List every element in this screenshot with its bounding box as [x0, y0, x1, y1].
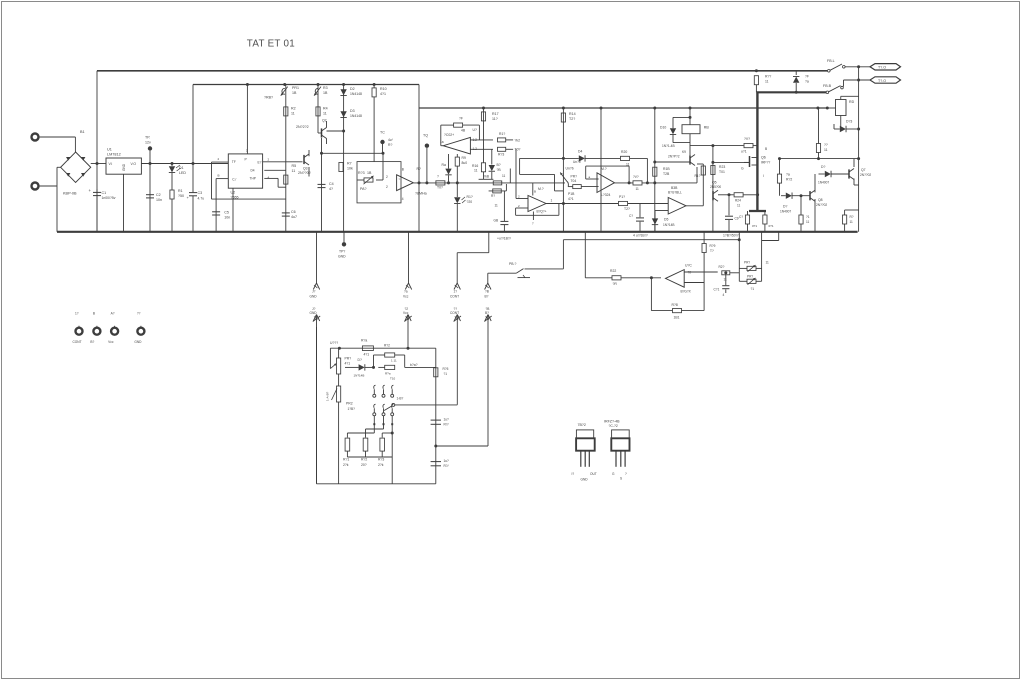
- svg-text:8u0: 8u0: [462, 161, 468, 165]
- svg-text:TQ: TQ: [423, 134, 428, 138]
- svg-text:T10: T10: [390, 377, 396, 381]
- svg-text:11: 11: [765, 80, 769, 84]
- svg-text:?: ?: [437, 175, 439, 179]
- svg-text:Q2: Q2: [322, 119, 327, 123]
- svg-text:R?3: R?3: [498, 153, 504, 157]
- svg-text:R14: R14: [569, 112, 576, 116]
- svg-text:2N5?00: 2N5?00: [710, 185, 721, 189]
- svg-text:U?C: U?C: [685, 264, 692, 268]
- svg-text:?R: ?R: [613, 282, 618, 286]
- svg-text:11: 11: [850, 220, 854, 224]
- svg-text:GND: GND: [310, 311, 318, 315]
- svg-text:20?: 20?: [361, 463, 367, 467]
- svg-text:R16: R16: [472, 164, 478, 168]
- svg-text:FB.L: FB.L: [827, 59, 835, 63]
- svg-text:C4: C4: [329, 182, 334, 186]
- svg-text:11: 11: [495, 204, 499, 208]
- svg-text:PR1: PR1: [292, 86, 299, 90]
- svg-text:GB: GB: [494, 219, 499, 223]
- svg-text:1N?14B: 1N?14B: [663, 223, 675, 227]
- svg-text:?C02+: ?C02+: [444, 133, 454, 137]
- svg-text:R?1: R?1: [343, 458, 349, 462]
- svg-text:2?k: 2?k: [378, 463, 384, 467]
- svg-text:B: B: [765, 147, 767, 151]
- svg-text:C2: C2: [156, 193, 161, 197]
- svg-text:I: I: [763, 174, 764, 178]
- svg-text:OUT: OUT: [590, 472, 597, 476]
- svg-text:1-B?: 1-B?: [397, 397, 404, 401]
- svg-text:Q3: Q3: [303, 167, 308, 171]
- svg-text:10n: 10n: [224, 215, 230, 219]
- svg-text:12v: 12v: [145, 141, 151, 145]
- svg-text:FB.B: FB.B: [823, 84, 832, 88]
- svg-text:1?B?/50?/: 1?B?/50?/: [723, 234, 739, 238]
- svg-text:PR2: PR2: [346, 402, 353, 406]
- svg-text:b?a?: b?a?: [410, 363, 418, 367]
- svg-text:B?Q?+: B?Q?+: [537, 210, 547, 214]
- svg-text:R1: R1: [178, 189, 183, 193]
- svg-text:??: ??: [137, 312, 141, 316]
- svg-text:T04: T04: [571, 179, 577, 183]
- svg-text:J?: J?: [312, 290, 316, 294]
- svg-text:RB: RB: [704, 126, 710, 130]
- svg-text:C./: C./: [232, 178, 236, 182]
- svg-text:0?1: 0?1: [769, 224, 774, 228]
- svg-text:2: 2: [218, 157, 220, 161]
- svg-text:4?1: 4?1: [345, 362, 351, 366]
- svg-text:R1B: R1B: [663, 167, 670, 171]
- svg-text:PR?: PR?: [744, 261, 750, 265]
- svg-text:D5: D5: [664, 218, 668, 222]
- svg-text:u?1: u?1: [741, 150, 747, 154]
- svg-text:1-A-B?: 1-A-B?: [326, 391, 330, 401]
- svg-text:1N?14B: 1N?14B: [354, 374, 365, 378]
- svg-text:?B: ?B: [485, 290, 489, 294]
- svg-text:U???: U???: [330, 341, 338, 345]
- svg-text:1: 1: [551, 199, 553, 203]
- svg-text:T0?: T0?: [515, 148, 521, 152]
- svg-text:D3: D3: [350, 109, 355, 113]
- svg-text:?a: ?a: [404, 290, 408, 294]
- svg-text:2: 2: [518, 204, 520, 208]
- svg-text:B?: B?: [497, 163, 501, 167]
- svg-text:R22: R22: [610, 269, 616, 273]
- svg-text:V.I: V.I: [109, 162, 113, 166]
- svg-text:11: 11: [806, 220, 810, 224]
- svg-text:R?3: R?3: [378, 458, 384, 462]
- svg-text:Q6: Q6: [761, 156, 766, 160]
- svg-text:4?1: 4?1: [568, 197, 574, 201]
- svg-text:B?G?BLL: B?G?BLL: [668, 191, 682, 195]
- svg-text:R10: R10: [380, 87, 387, 91]
- svg-text:1B: 1B: [292, 91, 297, 95]
- svg-text:R?2: R?2: [786, 178, 792, 182]
- svg-text:Ra: Ra: [442, 163, 446, 167]
- svg-text:C3: C3: [198, 191, 203, 195]
- svg-text:GND: GND: [581, 478, 589, 482]
- svg-text:P: P: [245, 158, 248, 162]
- svg-text:R2: R2: [291, 107, 296, 111]
- svg-text:PR?: PR?: [747, 275, 753, 279]
- svg-text:4?1: 4?1: [364, 353, 370, 357]
- svg-text:4: 4: [402, 197, 404, 201]
- svg-text:4B: 4B: [461, 129, 466, 133]
- svg-text:IRF??: IRF??: [761, 161, 770, 165]
- svg-text:1u?: 1u?: [444, 459, 450, 463]
- svg-text:C6: C6: [291, 210, 296, 214]
- svg-text:R?a: R?a: [385, 372, 391, 376]
- svg-text:B?: B?: [485, 295, 489, 299]
- svg-text:R9: R9: [462, 156, 466, 160]
- svg-text:11: 11: [292, 169, 296, 173]
- svg-text:B?G?X: B?G?X: [681, 290, 692, 294]
- svg-text:1B: 1B: [323, 91, 328, 95]
- svg-text:CONT: CONT: [73, 340, 82, 344]
- svg-text:KBP-0B: KBP-0B: [63, 192, 77, 196]
- svg-text:2: 2: [518, 195, 520, 199]
- svg-text:A?: A?: [111, 312, 115, 316]
- svg-text:?F: ?F: [805, 75, 809, 79]
- svg-text:R20: R20: [621, 150, 627, 154]
- svg-text:D1: D1: [179, 166, 184, 170]
- svg-text:PA?: PA?: [360, 187, 367, 191]
- svg-text:T?.O: T?.O: [878, 79, 886, 83]
- svg-text:B: B: [93, 312, 95, 316]
- svg-text:1N?1-4B: 1N?1-4B: [662, 144, 675, 148]
- svg-text:GND: GND: [310, 295, 318, 299]
- svg-text:4v/: 4v/: [388, 138, 393, 142]
- svg-text:Q5: Q5: [712, 181, 717, 185]
- svg-text:?F: ?F: [459, 117, 463, 121]
- svg-text:R1?: R1?: [499, 132, 505, 136]
- svg-text:CONT: CONT: [450, 311, 459, 315]
- svg-text:??: ??: [824, 143, 828, 147]
- svg-text:?1: ?1: [444, 372, 448, 376]
- svg-text:?V?: ?V?: [633, 175, 639, 179]
- svg-text:LM7812: LM7812: [107, 152, 121, 156]
- svg-text:TAT ET 01: TAT ET 01: [247, 38, 295, 49]
- svg-text:TP.: TP.: [145, 136, 150, 140]
- svg-text:2N??02: 2N??02: [860, 173, 871, 177]
- svg-text:V.O: V.O: [131, 162, 137, 166]
- svg-text:11: 11: [824, 148, 828, 152]
- svg-text:T01: T01: [719, 170, 725, 174]
- svg-text:R?3: R?3: [358, 171, 365, 175]
- svg-text:T?: T?: [710, 249, 714, 253]
- svg-text:B1: B1: [80, 130, 85, 134]
- svg-text:TP?: TP?: [339, 250, 345, 254]
- svg-text:Q8: Q8: [818, 198, 823, 202]
- svg-text:R?/: R?/: [444, 464, 449, 468]
- svg-text:11?: 11?: [492, 117, 498, 121]
- svg-text:GND: GND: [122, 163, 126, 171]
- svg-text:T?.O: T?.O: [878, 66, 886, 70]
- svg-text:?50: ?50: [178, 194, 184, 198]
- svg-text:R1?: R1?: [467, 195, 473, 199]
- svg-text:R??: R??: [765, 75, 771, 79]
- svg-text:R?a: R?a: [361, 339, 367, 343]
- svg-text:C5: C5: [224, 211, 229, 215]
- svg-text:11: 11: [291, 112, 295, 116]
- svg-text:1N4007: 1N4007: [780, 210, 791, 214]
- svg-text:R4: R4: [323, 107, 328, 111]
- svg-text:1?: 1?: [75, 312, 79, 316]
- svg-text:10n: 10n: [156, 198, 162, 202]
- svg-text:Q7: Q7: [861, 168, 866, 172]
- svg-text:4.7u: 4.7u: [198, 197, 205, 201]
- svg-text:4?1: 4?1: [380, 92, 386, 96]
- svg-text:D10: D10: [660, 126, 666, 130]
- svg-text:11: 11: [766, 261, 770, 265]
- svg-text:1 11: 1 11: [391, 359, 397, 363]
- svg-text:+: +: [89, 188, 92, 193]
- svg-text:D4: D4: [251, 169, 255, 173]
- svg-text:T2B: T2B: [663, 172, 670, 176]
- svg-text:Vcc: Vcc: [403, 311, 409, 315]
- svg-text:D?: D?: [783, 205, 787, 209]
- svg-text:1?B?: 1?B?: [348, 407, 356, 411]
- svg-text:4?: 4?: [329, 187, 333, 191]
- svg-text:C?: C?: [629, 214, 633, 218]
- svg-text:?0: ?0: [688, 271, 692, 275]
- svg-text:M.?: M.?: [538, 187, 544, 191]
- svg-text:1N4007: 1N4007: [818, 181, 829, 185]
- svg-text:D?: D?: [821, 165, 825, 169]
- svg-text:R1?: R1?: [695, 174, 701, 178]
- svg-text:2N??02: 2N??02: [816, 203, 827, 207]
- svg-text:Vcc: Vcc: [108, 340, 114, 344]
- svg-text:D?: D?: [358, 358, 362, 362]
- svg-text:LED: LED: [179, 171, 186, 175]
- svg-text:?k2: ?k2: [515, 139, 521, 143]
- svg-text:?: ?: [625, 472, 627, 476]
- svg-text:>: >: [399, 177, 401, 181]
- svg-text:R17: R17: [492, 112, 499, 116]
- svg-text:R?: R?: [388, 143, 392, 147]
- svg-text:U1: U1: [107, 148, 112, 152]
- svg-text:Un?b: Un?b: [566, 167, 574, 171]
- svg-text:?a: ?a: [805, 80, 809, 84]
- svg-text:R?: R?: [491, 194, 495, 198]
- svg-text:?20: ?20: [467, 200, 473, 204]
- svg-text:+u?/1B?/: +u?/1B?/: [497, 237, 511, 241]
- svg-text:B: B: [218, 174, 220, 178]
- svg-text:I?: I?: [572, 472, 575, 476]
- svg-text:P1B: P1B: [568, 192, 575, 196]
- svg-text:2: 2: [386, 175, 388, 179]
- svg-text:11: 11: [636, 187, 640, 191]
- svg-text:1B: 1B: [367, 171, 372, 175]
- svg-text:2N?P?2: 2N?P?2: [668, 155, 680, 159]
- svg-text:11: 11: [323, 112, 327, 116]
- svg-text:0?1: 0?1: [752, 224, 757, 228]
- svg-text:?8MHa: ?8MHa: [415, 192, 427, 196]
- svg-text:?B: ?B: [497, 168, 502, 172]
- svg-text:Vcc: Vcc: [403, 295, 409, 299]
- svg-text:11: 11: [737, 204, 741, 208]
- svg-text:1N4148: 1N4148: [350, 92, 362, 96]
- svg-text:R?9: R?9: [710, 244, 716, 248]
- svg-text:R?8: R?8: [672, 303, 678, 307]
- svg-text:Un?b: Un?b: [573, 160, 581, 164]
- svg-text:R?5: R?5: [443, 367, 449, 371]
- svg-text:B: B: [534, 190, 536, 194]
- svg-text:R?: R?: [850, 215, 854, 219]
- svg-text:G: G: [612, 472, 615, 476]
- svg-text:4 u?/1B?/: 4 u?/1B?/: [633, 234, 648, 238]
- svg-text:2: 2: [268, 158, 270, 162]
- svg-text:7B?2: 7B?2: [578, 423, 586, 427]
- svg-text:11: 11: [626, 163, 630, 167]
- svg-text:7: 7: [532, 222, 534, 226]
- svg-text:GND: GND: [134, 340, 142, 344]
- svg-text:B?: B?: [485, 311, 489, 315]
- svg-text:S: S: [620, 477, 622, 481]
- svg-text:M.?: M.?: [601, 167, 607, 171]
- svg-text:?a: ?a: [786, 173, 790, 177]
- svg-text:4: 4: [268, 176, 270, 180]
- svg-text:K9: K9: [682, 150, 686, 154]
- svg-text:11: 11: [724, 278, 728, 282]
- svg-text:1u?: 1u?: [444, 418, 450, 422]
- svg-text:R2?: R2?: [719, 265, 725, 269]
- svg-text:T0?: T0?: [437, 186, 443, 190]
- svg-text:C?1: C?1: [714, 288, 720, 292]
- svg-text:2N?2?2: 2N?2?2: [296, 125, 309, 129]
- svg-text:2?k: 2?k: [343, 463, 349, 467]
- svg-text:T2?: T2?: [624, 207, 630, 211]
- svg-text:?V?: ?V?: [744, 137, 750, 141]
- svg-text:1n00/?5v: 1n00/?5v: [102, 196, 116, 200]
- svg-text:E?: E?: [258, 161, 262, 165]
- svg-text:11: 11: [502, 174, 506, 178]
- svg-text:4u7: 4u7: [291, 215, 297, 219]
- svg-text:B?: B?: [90, 340, 94, 344]
- svg-text:?1: ?1: [751, 287, 755, 291]
- svg-text:G: G: [741, 167, 744, 171]
- svg-text:B3B: B3B: [671, 186, 678, 190]
- svg-text:B: B: [402, 168, 404, 172]
- svg-text:RD: RD: [849, 100, 855, 104]
- svg-text:P1?: P1?: [619, 195, 625, 199]
- svg-text:1B1: 1B1: [674, 315, 680, 319]
- svg-text:R24: R24: [735, 199, 741, 203]
- svg-text:R?/: R?/: [444, 423, 449, 427]
- svg-text:TC: TC: [380, 131, 385, 135]
- svg-text:1N4148: 1N4148: [350, 114, 362, 118]
- svg-text:?C-?2: ?C-?2: [609, 424, 618, 428]
- svg-text:R?2: R?2: [361, 458, 367, 462]
- svg-text:D4: D4: [578, 150, 582, 154]
- svg-text:D2: D2: [350, 87, 355, 91]
- svg-text:PB.?: PB.?: [509, 262, 516, 266]
- svg-text:10k: 10k: [347, 167, 353, 171]
- svg-text:U?: U?: [473, 128, 477, 132]
- svg-text:R?2: R?2: [384, 344, 390, 348]
- svg-text:?1: ?1: [806, 215, 810, 219]
- svg-text:TF: TF: [232, 160, 236, 164]
- svg-text:2: 2: [386, 185, 388, 189]
- svg-text:R23: R23: [719, 165, 725, 169]
- svg-text:GND: GND: [338, 255, 346, 259]
- svg-text:?kB: ?kB: [484, 175, 490, 179]
- svg-text:D?3: D?3: [846, 120, 852, 124]
- svg-text:?RB?: ?RB?: [264, 96, 273, 100]
- svg-text:IRFZ?-4B: IRFZ?-4B: [604, 420, 620, 424]
- svg-text:C1: C1: [102, 191, 107, 195]
- svg-text:L?324: L?324: [601, 193, 611, 197]
- svg-text:4: 4: [723, 293, 725, 297]
- svg-text:C?: C?: [739, 215, 743, 219]
- svg-text:R5: R5: [292, 164, 297, 168]
- svg-text:PR?: PR?: [345, 357, 352, 361]
- svg-text:CONT: CONT: [450, 295, 459, 299]
- svg-text:11: 11: [474, 169, 478, 173]
- svg-text:1?: 1?: [454, 290, 458, 294]
- svg-text:THP: THP: [250, 177, 256, 181]
- svg-text:R7: R7: [347, 162, 352, 166]
- svg-text:R3: R3: [323, 86, 328, 90]
- svg-text:T2?: T2?: [569, 117, 575, 121]
